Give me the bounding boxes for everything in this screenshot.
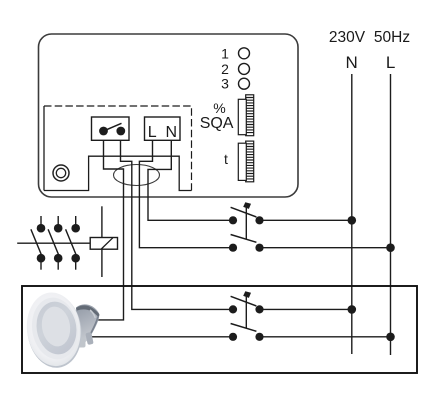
S1 lever row1 [231, 207, 257, 217]
svg-text:3: 3 [221, 76, 229, 92]
contactor actuating link [17, 242, 90, 244]
S2 lever row4 [231, 324, 257, 332]
wire L terminal to switch row2 [139, 140, 229, 247]
LED D1 [239, 48, 250, 59]
supply line L [390, 74, 392, 355]
S2 link [245, 294, 247, 329]
terminal compartment left wall [43, 106, 45, 191]
S2 contact dots row3 [229, 305, 237, 313]
fan duct connector [76, 304, 100, 347]
LED D3 [239, 78, 250, 89]
switch S2 (rows 3-4) [229, 291, 264, 341]
wire row3 to N line [260, 308, 352, 310]
S1 contact dots row2 [229, 244, 237, 252]
contactor coil K2 [90, 206, 117, 277]
svg-text:N: N [345, 53, 357, 72]
contactor K2 pole 2 [48, 216, 62, 270]
svg-text:L: L [386, 53, 395, 72]
svg-text:t: t [224, 151, 228, 167]
junction dot row3/N [348, 305, 357, 314]
wire fan to row4 [91, 336, 230, 338]
junction dot row2/L [386, 243, 395, 252]
junction dot row4/L [386, 333, 395, 342]
svg-text:50Hz: 50Hz [374, 29, 410, 46]
junction dot row1/N [348, 216, 357, 225]
wire row4 to L line [260, 336, 391, 338]
fan face disc [23, 290, 86, 370]
terminal compartment dashed boundary [44, 106, 192, 191]
S2 contact dots row4 [229, 333, 237, 341]
potentiometer t thumbwheel [238, 141, 253, 182]
switch S1 (rows 1-2) [229, 202, 264, 252]
svg-text:230V: 230V [329, 29, 366, 46]
fan M1 (photo) [23, 289, 100, 370]
relay output contact K1 [92, 117, 130, 140]
mounting screw [53, 165, 69, 181]
S2 lever row3 [231, 296, 257, 306]
S1 contact dots row1 [229, 216, 237, 224]
controller enclosure U1 [39, 34, 299, 197]
wire row1 to N line [260, 219, 352, 221]
S1 link [245, 205, 247, 240]
S2 flag [243, 291, 251, 298]
cable grommet [114, 165, 160, 186]
svg-text:L: L [148, 124, 157, 141]
svg-text:N: N [166, 124, 178, 141]
svg-text:SQA: SQA [200, 115, 234, 132]
potentiometer %SQA thumbwheel [238, 95, 253, 136]
S1 lever row2 [231, 235, 257, 243]
wire row2 to L line [260, 247, 391, 249]
moulding outline [44, 156, 192, 190]
contactor K2 pole 1 [31, 216, 45, 270]
wire relay-right to switch row3 [121, 140, 230, 309]
svg-text:2: 2 [221, 61, 229, 77]
svg-text:1: 1 [221, 45, 229, 61]
wire N terminal to switch row1 [148, 140, 230, 220]
contactor K2 pole 3 [66, 216, 80, 270]
wire relay-left to fan (upper) [95, 140, 124, 320]
svg-text:%: % [213, 100, 225, 116]
S1 flag [243, 202, 251, 209]
LED D2 [239, 63, 250, 74]
fan enclosure box [22, 286, 417, 373]
terminal block L N [145, 117, 181, 140]
supply line N [351, 74, 353, 354]
